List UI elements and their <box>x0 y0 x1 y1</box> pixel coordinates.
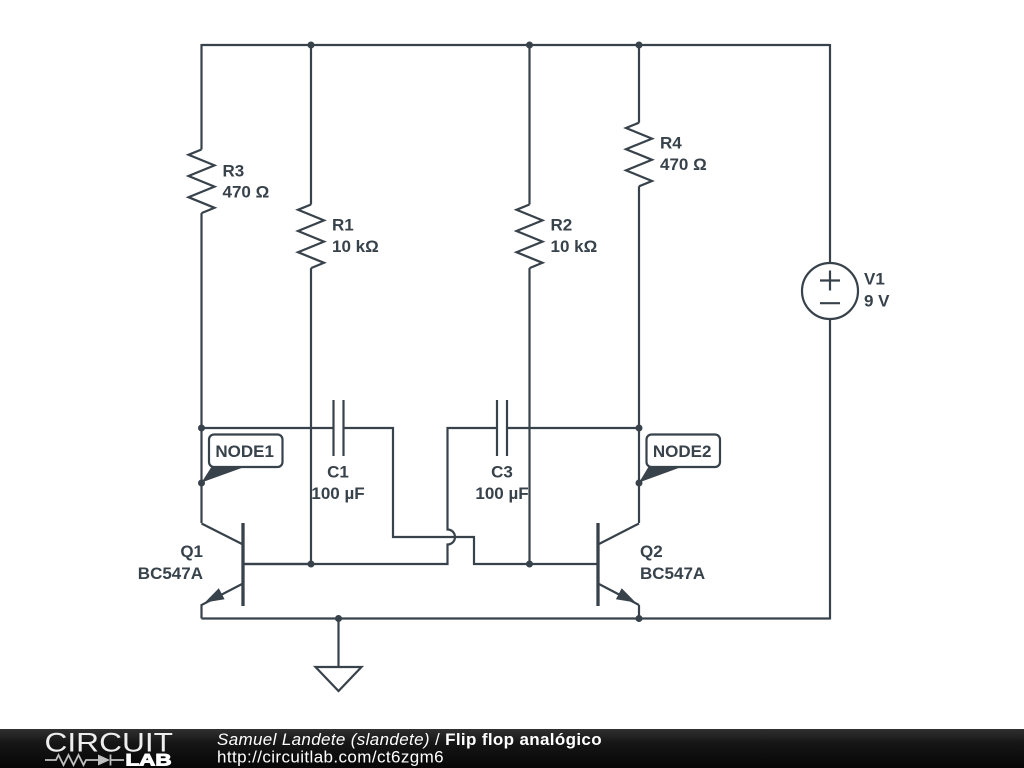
svg-text:BC547A: BC547A <box>138 564 203 583</box>
node NODE1 pointer dot (x201,y483) <box>198 480 205 487</box>
resistor R2 <box>517 205 543 269</box>
wire right column V1 bottom <box>829 319 831 620</box>
wire R1 column bottom lead to Q1 base line <box>310 268 312 564</box>
svg-text:LAB: LAB <box>126 752 172 768</box>
svg-text:470 Ω: 470 Ω <box>660 155 707 174</box>
svg-text:9 V: 9 V <box>864 292 890 311</box>
transistor Q1 emitter arrow <box>205 588 225 602</box>
node NODE2 pointer dot (x639,y483) <box>636 480 643 487</box>
wire left column upper (R3 top lead) <box>200 44 202 150</box>
wire C3 horizontal to NODE2 <box>507 427 639 429</box>
node NODE2 callout <box>639 435 720 483</box>
svg-text:Samuel Landete (slandete) / Fl: Samuel Landete (slandete) / Flip flop an… <box>217 730 602 749</box>
ground <box>316 619 362 692</box>
wire R1 column top lead <box>310 45 312 205</box>
svg-text:R3: R3 <box>223 162 245 181</box>
junction dot R1 / Q1 base (x311,y564) <box>308 561 315 568</box>
wire left column R3 bottom to Q1 collector corner <box>200 213 202 523</box>
wire R4 column top lead <box>638 45 640 123</box>
svg-text:R1: R1 <box>332 216 354 235</box>
svg-text:NODE1: NODE1 <box>215 442 274 461</box>
junction dot Q2 emitter / rail (x639,y618) <box>636 615 643 622</box>
voltage source V1 <box>802 263 858 319</box>
wire R2 column top lead <box>528 45 530 205</box>
wire bottom rail <box>202 617 831 619</box>
resistor R1 <box>298 205 324 269</box>
wire C1 right to corner and down (to Q2 base) <box>344 428 599 564</box>
wire C1 horizontal from NODE1 <box>202 427 334 429</box>
svg-text:BC547A: BC547A <box>640 564 705 583</box>
svg-text:NODE2: NODE2 <box>653 442 712 461</box>
junction dot V+ rail / R4 (x639,y45) <box>636 42 643 49</box>
svg-text:470 Ω: 470 Ω <box>223 183 270 202</box>
junction dot NODE1 / C1 wire (x201,y428) <box>198 425 205 432</box>
wire right column V1 top <box>829 44 831 263</box>
svg-text:C1: C1 <box>327 463 349 482</box>
wire R4 column bottom to Q2 collector corner <box>638 186 640 523</box>
junction dot ground / emitter rail (x338,y618) <box>335 615 342 622</box>
logo resistor-diode art <box>45 755 124 766</box>
wire top rail <box>202 44 831 46</box>
svg-text:V1: V1 <box>864 270 885 289</box>
wire R2 column bottom lead to Q2 base line <box>528 268 530 564</box>
svg-text:100 µF: 100 µF <box>311 484 364 503</box>
transistor Q2 <box>598 523 639 619</box>
svg-text:10 kΩ: 10 kΩ <box>551 237 598 256</box>
svg-text:R2: R2 <box>551 216 573 235</box>
junction dot NODE2 / C3 wire (x639,y428) <box>636 425 643 432</box>
junction dot V+ rail / R1 (x311,y45) <box>308 42 315 49</box>
capacitor C1 plates <box>334 400 344 456</box>
junction dot V+ rail / R2 (x529,y45) <box>526 42 533 49</box>
wire C3 left corner down with hop over crossing (to Q1 base) <box>243 428 497 564</box>
resistor R4 <box>626 123 652 187</box>
svg-text:http://circuitlab.com/ct6zgm6: http://circuitlab.com/ct6zgm6 <box>217 748 444 767</box>
transistor Q2 emitter arrow <box>616 588 636 602</box>
resistor R3 <box>189 150 215 214</box>
transistor Q1 <box>202 523 312 619</box>
svg-text:C3: C3 <box>491 463 513 482</box>
svg-text:10 kΩ: 10 kΩ <box>332 237 379 256</box>
node NODE1 callout <box>202 435 283 483</box>
svg-text:Q2: Q2 <box>640 542 663 561</box>
svg-text:R4: R4 <box>660 134 682 153</box>
capacitor C3 plates <box>497 400 507 456</box>
svg-text:100 µF: 100 µF <box>475 484 528 503</box>
svg-text:Q1: Q1 <box>180 542 203 561</box>
junction dot R2 / Q2 base (x529,y564) <box>526 561 533 568</box>
